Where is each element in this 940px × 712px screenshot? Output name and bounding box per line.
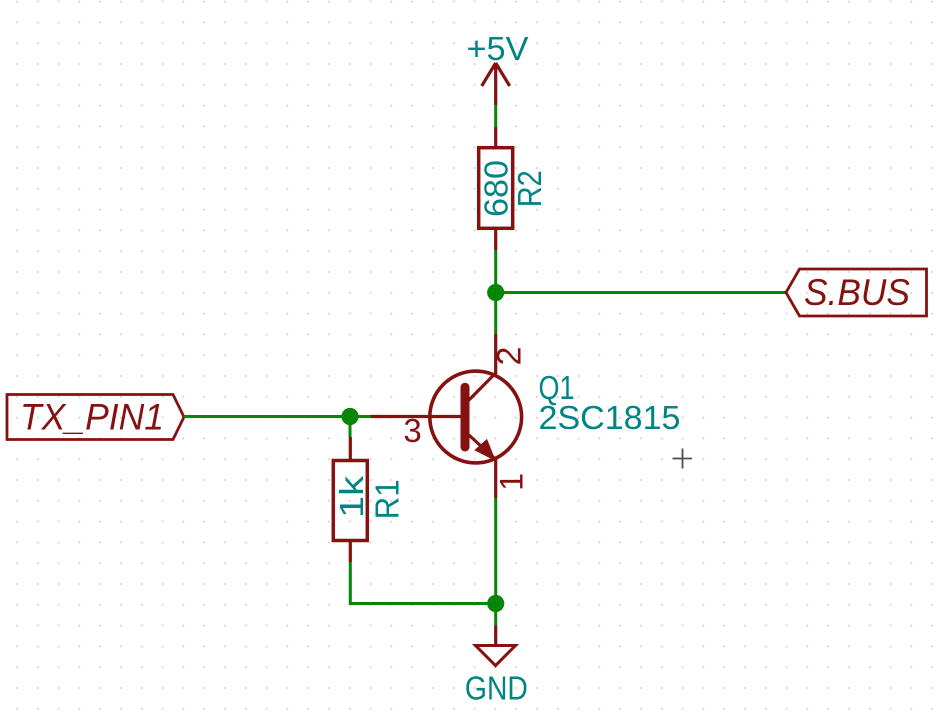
wire node to GND [494, 604, 497, 626]
pin 2 (collector) [494, 334, 497, 374]
global label TX_PIN1 [7, 395, 184, 440]
svg-text:GND: GND [465, 670, 528, 707]
wire R1 down and over to GND node [350, 562, 495, 604]
svg-text:S.BUS: S.BUS [804, 272, 910, 313]
svg-text:3: 3 [403, 412, 421, 449]
transistor Q1 [371, 371, 522, 463]
global label S.BUS [786, 269, 927, 316]
ground GND [465, 626, 528, 707]
pin 1 (emitter) [494, 460, 497, 499]
resistor R2 [479, 127, 513, 250]
wire TX_PIN1 to base [184, 415, 371, 418]
junction node emitter-gnd [487, 595, 504, 612]
junction node base [341, 408, 358, 425]
wire R2 to node [494, 250, 497, 293]
svg-text:1: 1 [494, 473, 530, 491]
svg-text:2SC1815: 2SC1815 [539, 399, 681, 436]
wire node to R1 [349, 417, 352, 438]
svg-text:R2: R2 [511, 170, 548, 207]
svg-text:680: 680 [477, 160, 514, 217]
wire node to Q1 collector [494, 293, 497, 335]
wire node to S.BUS [496, 291, 786, 294]
junction node collector [487, 284, 504, 301]
svg-text:2: 2 [491, 347, 529, 366]
wire +5V to R2 [494, 105, 497, 127]
anchor cross [673, 449, 693, 469]
svg-text:R1: R1 [369, 479, 406, 519]
svg-text:+5V: +5V [467, 30, 529, 67]
svg-text:TX_PIN1: TX_PIN1 [20, 397, 164, 438]
svg-text:1k: 1k [333, 475, 370, 518]
power +5V [467, 30, 529, 105]
wire emitter down [494, 498, 497, 604]
resistor R1 [333, 437, 367, 562]
